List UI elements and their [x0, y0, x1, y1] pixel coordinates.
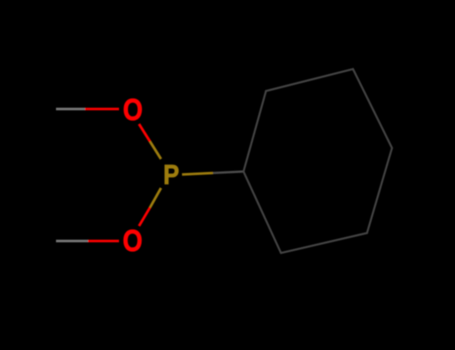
svg-text:P: P: [163, 161, 179, 191]
svg-text:O: O: [123, 223, 143, 258]
svg-text:O: O: [123, 92, 143, 127]
